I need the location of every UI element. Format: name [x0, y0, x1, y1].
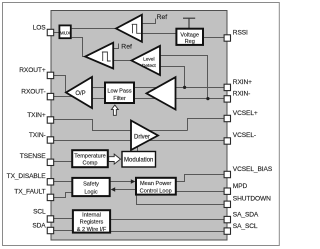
wire RXIN- rail	[92, 98, 224, 100]
MUX box	[59, 25, 70, 38]
pin TXIN+	[47, 117, 53, 123]
svg-text:VCSEL+: VCSEL+	[233, 110, 258, 117]
svg-text:SA_SDA: SA_SDA	[233, 211, 259, 218]
pin RXOUT+	[47, 72, 53, 78]
svg-text:SDA: SDA	[32, 222, 46, 229]
left pins	[47, 29, 53, 233]
internal registers box	[73, 210, 110, 232]
svg-text:O/P: O/P	[75, 91, 85, 97]
pin RXIN-	[224, 96, 230, 102]
svg-text:Level: Level	[143, 56, 154, 62]
svg-text:Ref: Ref	[121, 43, 132, 50]
pin TSENSE	[47, 159, 53, 165]
svg-text:Logic: Logic	[84, 190, 98, 196]
modulation box	[122, 152, 156, 168]
wire RSSI line comparator U1 input to Voltage Reg left	[142, 33, 176, 35]
pin MPD	[224, 188, 230, 194]
pin SA_SDA	[224, 216, 230, 222]
right pin labels	[233, 29, 273, 229]
junction dot on RXIN+ rail	[183, 86, 186, 89]
low pass filter box	[105, 83, 134, 104]
svg-text:Low Pass: Low Pass	[107, 89, 131, 95]
wire Mean Power to Safety Logic arrow line	[113, 189, 136, 191]
wire Voltage Reg right to RSSI pin	[203, 37, 224, 39]
wire SDA to Internal Registers	[54, 230, 72, 232]
pin SHUTDOWN	[224, 201, 230, 207]
pin SA_SCL	[224, 228, 230, 234]
wire modulation to driver	[137, 147, 139, 152]
wire Safety Logic to Mean Power arrow line	[111, 181, 134, 183]
svg-text:MUX: MUX	[60, 30, 71, 36]
svg-text:Comp: Comp	[83, 161, 98, 167]
wire RXIN+ rail	[92, 87, 224, 89]
wire TXIN- rail to VCSEL-	[54, 140, 224, 142]
wire SCL to Internal Registers	[54, 218, 72, 220]
pin RSSI	[224, 35, 230, 41]
wire Internal Registers to SA_SDA	[111, 219, 224, 221]
svg-text:TXIN-: TXIN-	[29, 132, 46, 139]
level detect triangle	[132, 46, 161, 75]
comparator U2 triangle with hysteresis	[85, 43, 113, 69]
svg-text:Safety: Safety	[83, 182, 99, 188]
svg-text:SCL: SCL	[33, 208, 46, 215]
pin VCSEL-	[224, 138, 230, 144]
svg-text:Reg: Reg	[185, 39, 195, 45]
right pins	[224, 35, 230, 234]
mean power control loop box	[136, 178, 176, 195]
pin SDA	[47, 227, 53, 233]
temperature comp box	[72, 150, 108, 167]
wire TSENSE to Temperature Comp	[54, 161, 72, 163]
driver triangle	[131, 121, 158, 151]
pin SCL	[47, 216, 53, 222]
left pin labels	[7, 25, 47, 230]
svg-text:Registers: Registers	[80, 220, 104, 226]
svg-text:SA_SCL: SA_SCL	[233, 223, 258, 230]
svg-text:RSSI: RSSI	[233, 29, 248, 36]
wire MUX to comparator U1 output	[72, 28, 117, 30]
wire Level Detect output to comparator U2	[113, 60, 132, 62]
svg-text:Temperature: Temperature	[74, 154, 105, 160]
wire TX_FAULT elbow to Safety Logic	[54, 193, 72, 198]
pin RXIN+	[224, 84, 230, 90]
svg-text:Mean Power: Mean Power	[140, 181, 172, 187]
voltage regulator box	[176, 29, 203, 45]
svg-text:TX_DISABLE: TX_DISABLE	[7, 173, 47, 180]
wire Level Detect lower input to RXIN+ rail	[160, 67, 185, 88]
svg-text:RXOUT+: RXOUT+	[19, 67, 46, 74]
wire MUX to comparator U2 output (elbow)	[72, 38, 86, 57]
svg-text:RXIN+: RXIN+	[233, 79, 252, 86]
svg-text:Ref: Ref	[157, 14, 168, 21]
wire Mean Power to VCSEL_BIAS jog	[177, 175, 225, 182]
svg-text:RXOUT-: RXOUT-	[21, 88, 45, 95]
svg-text:Voltage: Voltage	[180, 33, 199, 39]
svg-text:RXIN-: RXIN-	[233, 91, 250, 98]
junction dot on RXIN- rail	[206, 97, 209, 100]
block arrow right between temp comp and modulation	[109, 154, 121, 164]
svg-text:Internal: Internal	[82, 213, 101, 219]
svg-text:Control Loop: Control Loop	[140, 189, 172, 195]
pin VCSEL_BIAS	[224, 171, 230, 177]
pin TX_FAULT	[47, 194, 53, 200]
wire RXOUT+ elbow to O/P output	[54, 76, 66, 93]
pin VCSEL+	[224, 115, 230, 121]
svg-text:VCSEL_BIAS: VCSEL_BIAS	[233, 166, 273, 173]
svg-text:Modulation: Modulation	[124, 158, 153, 164]
svg-text:SHUTDOWN: SHUTDOWN	[233, 196, 271, 203]
wire TX_DISABLE to Safety Logic	[54, 181, 72, 183]
wire RXOUT- to O/P	[54, 96, 78, 98]
svg-text:TSENSE: TSENSE	[20, 153, 46, 160]
pin TX_DISABLE	[47, 179, 53, 185]
svg-text:TXIN+: TXIN+	[27, 112, 46, 119]
IC block body	[51, 11, 227, 241]
svg-text:VCSEL-: VCSEL-	[233, 132, 256, 139]
op-amp O/P triangle	[66, 77, 92, 108]
svg-text:Detect: Detect	[142, 63, 157, 69]
wire SHUTDOWN elbow from Mean Power bottom	[137, 196, 225, 205]
svg-text:LOS: LOS	[33, 25, 47, 32]
arrowhead into Safety Logic	[111, 187, 116, 191]
comparator U1 triangle with hysteresis	[116, 15, 142, 42]
svg-text:Filter: Filter	[113, 96, 126, 102]
safety logic box	[72, 178, 109, 196]
pin RXOUT-	[47, 93, 53, 99]
power rail symbol above Voltage Reg	[183, 18, 195, 28]
wire VCSEL+ riser and feed	[188, 119, 225, 131]
wire TXIN+ elbow to driver rail	[54, 120, 188, 131]
wire LOS pin to MUX	[54, 32, 59, 34]
wire Ref elbow for comparator U2	[113, 44, 118, 49]
wire Ref elbow for comparator U1	[142, 19, 156, 24]
wire MPD to Mean Power	[177, 191, 225, 193]
pin LOS	[47, 29, 53, 35]
block arrow up below low pass filter	[111, 105, 118, 115]
rx amplifier triangle	[147, 77, 176, 109]
pin TXIN-	[47, 137, 53, 143]
svg-text:MPD: MPD	[233, 183, 248, 190]
wire Internal Registers to SA_SCL	[111, 231, 224, 233]
svg-text:& 2 Wire I/F: & 2 Wire I/F	[77, 227, 107, 233]
svg-text:Driver: Driver	[134, 134, 150, 140]
wire Level Detect upper input to RXIN- rail	[160, 56, 208, 99]
arrowhead into Mean Power	[131, 179, 136, 183]
svg-text:TX_FAULT: TX_FAULT	[14, 189, 45, 196]
